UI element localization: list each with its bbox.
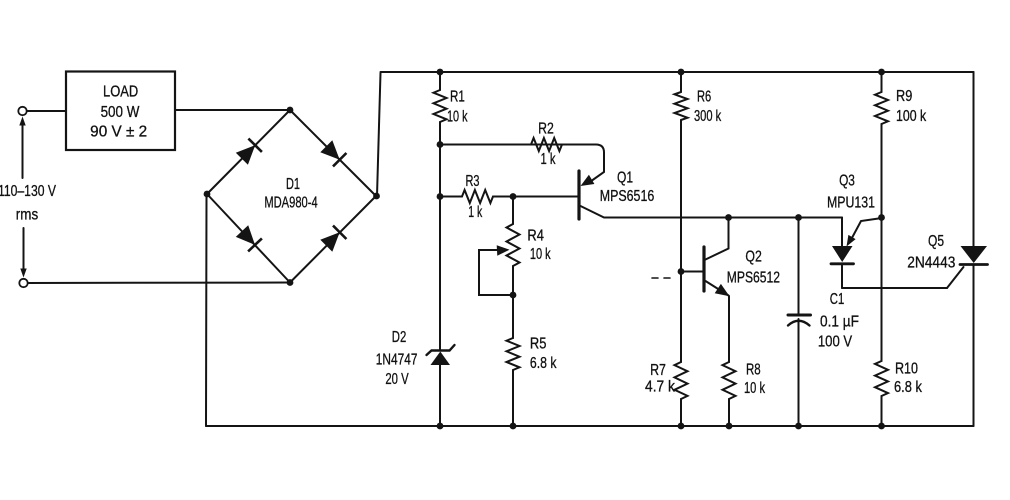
svg-text:10 k: 10 k [447, 109, 468, 126]
svg-text:Q5: Q5 [928, 233, 944, 250]
svg-text:rms: rms [16, 207, 39, 224]
svg-text:1 k: 1 k [468, 204, 482, 221]
svg-text:R6: R6 [697, 89, 711, 106]
svg-text:100 V: 100 V [818, 334, 853, 351]
svg-text:90 V ± 2: 90 V ± 2 [90, 124, 147, 141]
svg-text:6.8 k: 6.8 k [894, 379, 922, 396]
svg-text:C1: C1 [830, 291, 845, 308]
svg-text:100 k: 100 k [896, 108, 926, 125]
svg-text:R10: R10 [895, 360, 918, 377]
svg-text:MPS6516: MPS6516 [600, 188, 655, 205]
svg-text:6.8 k: 6.8 k [530, 355, 557, 372]
svg-text:R9: R9 [896, 88, 912, 105]
svg-text:D2: D2 [392, 329, 407, 346]
svg-text:300 k: 300 k [694, 108, 721, 125]
svg-text:R2: R2 [538, 120, 554, 137]
svg-text:2N4443: 2N4443 [907, 255, 955, 272]
svg-text:500 W: 500 W [101, 104, 140, 121]
svg-text:Q2: Q2 [745, 249, 761, 266]
svg-text:10 k: 10 k [530, 246, 551, 263]
svg-text:10 k: 10 k [744, 380, 765, 397]
svg-text:4.7 k: 4.7 k [645, 379, 675, 396]
svg-text:110–130 V: 110–130 V [0, 183, 57, 200]
svg-text:Q1: Q1 [617, 170, 633, 187]
svg-text:R8: R8 [746, 361, 761, 378]
svg-text:R7: R7 [650, 362, 666, 379]
svg-text:R4: R4 [527, 227, 544, 244]
svg-text:R5: R5 [530, 335, 547, 352]
svg-text:R1: R1 [450, 89, 465, 106]
svg-text:MPU131: MPU131 [827, 195, 875, 212]
svg-text:D1: D1 [286, 176, 300, 193]
svg-text:1 k: 1 k [541, 151, 556, 168]
svg-text:Q3: Q3 [839, 173, 855, 190]
svg-text:MDA980-4: MDA980-4 [264, 195, 318, 212]
svg-text:20 V: 20 V [385, 371, 409, 388]
svg-text:1N4747: 1N4747 [376, 352, 418, 369]
svg-text:LOAD: LOAD [103, 83, 138, 100]
svg-text:0.1 µF: 0.1 µF [820, 313, 859, 330]
svg-text:MPS6512: MPS6512 [727, 270, 780, 287]
svg-text:R3: R3 [466, 173, 480, 190]
